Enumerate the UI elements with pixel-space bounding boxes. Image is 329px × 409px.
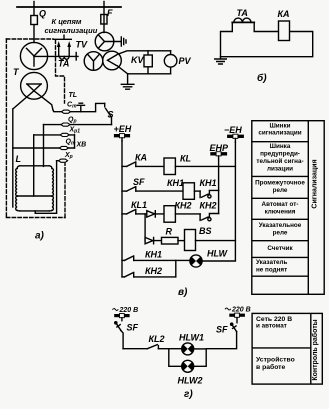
contact KL2 xyxy=(147,345,158,349)
wire F stub above bus xyxy=(103,2,105,8)
svg-text:Контроль работы: Контроль работы xyxy=(311,319,319,380)
svg-text:КН2: КН2 xyxy=(145,266,162,276)
terminal EHP xyxy=(212,152,225,155)
wire top bus xyxy=(17,6,121,8)
breaker Q xyxy=(33,7,35,43)
svg-text:SF: SF xyxy=(133,177,145,187)
svg-text:сигнализации: сигнализации xyxy=(258,130,301,137)
breaker contact SF right xyxy=(232,325,237,332)
svg-text:КН1: КН1 xyxy=(200,178,217,188)
svg-text:КН1: КН1 xyxy=(145,250,162,260)
node Xp1 connector xyxy=(60,133,69,136)
svg-text:ключения: ключения xyxy=(265,208,296,215)
diode VD1 xyxy=(147,211,155,217)
wire Q stub above bus xyxy=(33,2,35,8)
wire TV to rails xyxy=(117,51,170,55)
terminal +EH xyxy=(116,134,129,137)
wire T right lead to Ct row xyxy=(53,110,62,112)
svg-text:Qт: Qт xyxy=(66,139,76,147)
terminal -EH xyxy=(229,135,242,138)
svg-text:КL1: КL1 xyxy=(131,200,147,210)
breaker contact SF left xyxy=(115,322,117,324)
svg-text:HLW2: HLW2 xyxy=(178,376,203,386)
connector XB bracket xyxy=(74,135,76,148)
svg-text:SF: SF xyxy=(127,323,139,333)
svg-text:КL: КL xyxy=(180,154,191,164)
bus plus xyxy=(121,141,123,277)
svg-text:220 В: 220 В xyxy=(231,307,251,314)
row 3: contact KL1 xyxy=(122,213,127,215)
relay KH1 coil xyxy=(183,183,194,200)
svg-text:R: R xyxy=(166,227,173,237)
svg-text:HLW1: HLW1 xyxy=(179,333,204,343)
relay KL xyxy=(164,158,175,175)
svg-text:предупреди-: предупреди- xyxy=(260,151,300,158)
svg-text:сигнализации: сигнализации xyxy=(45,26,98,35)
svg-text:220 В: 220 В xyxy=(119,307,139,314)
TV delta bottom-right xyxy=(108,55,117,66)
svg-text:в работе: в работе xyxy=(256,363,286,371)
contact KH2 (right) xyxy=(200,214,208,221)
wire Qt row xyxy=(13,147,75,149)
diode VD2 xyxy=(145,237,153,243)
row 2: contact SF xyxy=(122,190,127,192)
wire T left lead down xyxy=(12,109,14,207)
svg-text:Q: Q xyxy=(39,9,46,19)
svg-text:BS: BS xyxy=(199,226,212,236)
node Qp connector xyxy=(61,123,70,126)
svg-text:Автомат от-: Автомат от- xyxy=(262,201,299,208)
svg-text:ЕНР: ЕНР xyxy=(210,143,230,153)
svg-text:HLW: HLW xyxy=(207,249,229,259)
TA arrows to signal circuits xyxy=(59,46,69,56)
lamp HLW1 xyxy=(169,348,182,350)
node Qt connector xyxy=(59,146,68,149)
svg-text:Указательное: Указательное xyxy=(259,222,302,229)
reactor L xyxy=(16,166,54,211)
resistor R xyxy=(162,237,179,244)
wire to KL2 xyxy=(123,348,147,350)
contact KH1 (right) xyxy=(200,191,208,198)
svg-text:КН2: КН2 xyxy=(200,201,217,211)
TV star top xyxy=(99,35,114,48)
TV star bottom-left xyxy=(88,55,99,70)
svg-text:лизации: лизации xyxy=(267,166,293,173)
svg-text:Qр: Qр xyxy=(68,117,77,125)
svg-text:TV: TV xyxy=(76,40,88,50)
bypass loop with lamp HLW2 xyxy=(169,349,206,367)
svg-text:TA: TA xyxy=(58,59,69,69)
wire Ct row to switch S xyxy=(71,103,105,111)
wire Xp1 row xyxy=(34,134,75,136)
svg-text:реле: реле xyxy=(273,187,288,194)
switch S xyxy=(104,103,106,106)
voltage transformer TV xyxy=(84,32,177,89)
svg-text:F: F xyxy=(107,8,113,18)
wire Xp row xyxy=(57,160,59,162)
ground mark on Ct row xyxy=(77,103,84,112)
svg-text:б): б) xyxy=(257,72,267,84)
lamp HLW xyxy=(190,255,202,267)
relay KV xyxy=(147,51,149,74)
svg-text:г): г) xyxy=(184,389,193,400)
svg-text:Устройство: Устройство xyxy=(256,356,295,364)
svg-text:КL2: КL2 xyxy=(149,334,165,344)
dashed TA cable to Ct xyxy=(56,40,65,103)
row 5: contact KH1 xyxy=(122,259,125,261)
wire Qp row xyxy=(44,124,112,126)
transformer T winding 1 (star) xyxy=(20,42,47,69)
fuse F xyxy=(103,7,105,33)
svg-text:PV: PV xyxy=(179,56,192,66)
svg-text:TL: TL xyxy=(69,92,78,99)
transformer T winding 2 (delta) xyxy=(21,72,48,99)
label ~220V right xyxy=(225,308,231,310)
voltmeter PV xyxy=(170,51,172,74)
terminal ~220V right xyxy=(231,314,243,317)
svg-text:КА: КА xyxy=(135,153,147,163)
svg-text:КН1: КН1 xyxy=(167,178,184,188)
svg-text:Шинка: Шинка xyxy=(270,143,291,150)
svg-text:+ЕН: +ЕН xyxy=(114,124,132,134)
bus minus xyxy=(234,142,236,260)
relay KA xyxy=(279,21,290,41)
row 1: contact KA xyxy=(122,165,127,167)
node Xp connector xyxy=(59,159,68,162)
svg-text:а): а) xyxy=(35,231,45,242)
row 4 branch xyxy=(144,214,146,241)
label ~220V left xyxy=(113,309,119,311)
svg-text:Xр: Xр xyxy=(64,152,73,160)
svg-text:Xр1: Xр1 xyxy=(69,127,81,135)
node Ct connector xyxy=(62,110,71,113)
svg-text:Сигнализация: Сигнализация xyxy=(312,159,319,208)
svg-text:Промежуточное: Промежуточное xyxy=(255,179,305,186)
relay KH2 coil xyxy=(164,206,175,223)
svg-text:Шинки: Шинки xyxy=(269,122,290,129)
wire to right SF xyxy=(206,332,236,349)
svg-text:КА: КА xyxy=(278,9,290,19)
dashed enclosure а) xyxy=(6,39,65,218)
svg-text:S: S xyxy=(108,110,114,120)
wire loop б) xyxy=(221,22,313,56)
ground TV neutral xyxy=(114,37,126,46)
svg-text:не поднят: не поднят xyxy=(256,267,287,274)
svg-text:в): в) xyxy=(178,287,188,298)
svg-text:TA: TA xyxy=(237,8,248,18)
ground TV xyxy=(121,74,134,89)
svg-text:SF: SF xyxy=(216,325,228,335)
svg-text:KV: KV xyxy=(131,55,144,65)
svg-text:−ЕН: −ЕН xyxy=(224,125,242,135)
svg-text:Cт: Cт xyxy=(67,102,77,110)
svg-text:тельной сигна-: тельной сигна- xyxy=(256,157,303,165)
device BS xyxy=(185,230,196,251)
terminal ~220V left xyxy=(116,314,128,317)
current transformer TA xyxy=(34,55,78,57)
row 6: contact KH2 xyxy=(122,276,125,278)
current transformer TA (b) xyxy=(232,21,254,23)
svg-text:L: L xyxy=(16,154,22,164)
svg-text:XB: XB xyxy=(76,142,87,149)
ground б) xyxy=(215,57,227,64)
svg-text:К цепям: К цепям xyxy=(52,17,82,26)
svg-text:КН2: КН2 xyxy=(175,201,192,211)
svg-text:Указатель: Указатель xyxy=(256,259,288,266)
svg-text:Счетчик: Счетчик xyxy=(267,245,293,252)
svg-text:реле: реле xyxy=(273,230,288,237)
svg-text:и автомат: и автомат xyxy=(256,323,287,330)
